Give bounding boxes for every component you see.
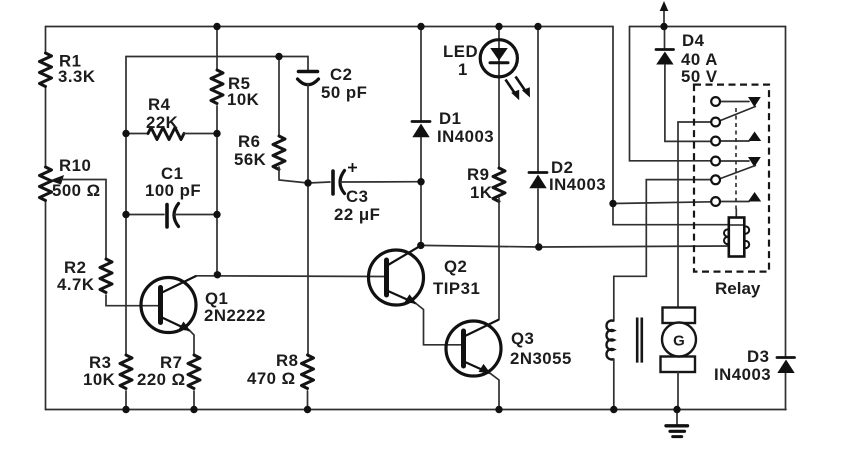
wire C1 right lead	[175, 214, 218, 216]
node R6 top	[275, 53, 282, 60]
svg-text:470 Ω: 470 Ω	[247, 369, 296, 388]
svg-text:D3: D3	[747, 347, 769, 366]
svg-text:100 pF: 100 pF	[145, 181, 201, 200]
svg-text:500 Ω: 500 Ω	[52, 181, 101, 200]
label D2 IN4003	[549, 158, 606, 194]
relay contact 3	[711, 132, 761, 146]
wire C2 to C3 node vertical	[307, 84, 309, 184]
relay contact 6	[711, 192, 761, 206]
svg-text:4.7K: 4.7K	[57, 275, 94, 294]
svg-text:10K: 10K	[227, 90, 259, 109]
wire top rail	[46, 27, 614, 225]
svg-text:G: G	[673, 333, 685, 350]
wire D4 box left to c4	[630, 27, 712, 161]
wire R9 to Q3 collector	[498, 198, 500, 320]
relay contact 1	[711, 97, 761, 107]
capacitor C2	[298, 72, 319, 85]
wire Q2 emitter to Q3 base	[416, 304, 461, 345]
wire C1 left lead	[126, 214, 164, 216]
wire collector line Q2 Q3 to relay coil	[421, 245, 729, 247]
label R1 3.3K	[58, 52, 95, 87]
node C1 right	[213, 211, 220, 218]
node Q1 collector	[214, 271, 221, 278]
transistor Q1	[141, 276, 197, 333]
node ground	[673, 406, 680, 413]
transistor Q2	[369, 246, 424, 305]
wire R10 wiper to R2	[62, 180, 106, 260]
svg-text:R6: R6	[238, 132, 260, 151]
svg-text:LED: LED	[443, 42, 478, 61]
resistor R1	[40, 53, 52, 87]
wire generator to ground node	[677, 372, 679, 410]
node top rail D1	[417, 23, 424, 30]
node R7 bottom	[190, 406, 197, 413]
label R6 56K	[234, 132, 266, 169]
label R3 10K	[83, 353, 115, 389]
wire C3 right lead to D1 line	[341, 181, 422, 183]
inductor coil	[606, 321, 613, 360]
svg-text:IN4003: IN4003	[437, 127, 494, 146]
wire Q3 emitter to bottom rail	[490, 373, 499, 409]
label R4 22K	[146, 95, 178, 132]
svg-text:50 V: 50 V	[681, 67, 718, 86]
transistor Q3	[446, 320, 501, 377]
svg-text:R9: R9	[467, 165, 489, 184]
label R7 220	[137, 353, 186, 389]
label R10 500	[52, 156, 101, 200]
node R8 bottom	[304, 406, 311, 413]
svg-text:R4: R4	[148, 95, 171, 114]
wire node to R8	[307, 183, 309, 355]
node C3 left	[304, 179, 311, 186]
wire R4 left lead	[126, 133, 148, 135]
svg-text:Q2: Q2	[444, 257, 467, 276]
node R3 bottom	[122, 406, 129, 413]
node top rail D2	[534, 23, 541, 30]
label Q3 2N3055	[510, 329, 572, 368]
svg-text:2N3055: 2N3055	[510, 349, 572, 368]
wire R4 right lead	[184, 133, 217, 135]
svg-text:Q3: Q3	[511, 329, 534, 348]
transformer core bars	[637, 318, 642, 363]
wire D4 box top	[630, 26, 786, 28]
label R2 4.7K	[57, 258, 94, 294]
resistor R7	[188, 355, 200, 389]
svg-text:TIP31: TIP31	[433, 279, 480, 298]
node R4 left	[122, 130, 129, 137]
resistor R2	[100, 259, 112, 293]
capacitor C1	[167, 204, 179, 228]
label D3 IN4003	[714, 347, 771, 384]
wire R7 to bottom rail	[193, 391, 195, 410]
wire left rail	[45, 27, 47, 410]
potentiometer R10	[40, 167, 65, 201]
svg-text:22K: 22K	[146, 113, 178, 132]
diode D2	[529, 173, 547, 189]
wire coil to bottom rail	[613, 359, 615, 410]
capacitor C3	[333, 163, 357, 194]
wire bottom rail	[46, 409, 787, 411]
label R9 1K	[467, 165, 492, 202]
LED 1	[480, 40, 530, 101]
wire R5 branch vertical	[216, 27, 218, 275]
generator G	[661, 308, 697, 373]
resistor R4	[148, 128, 184, 140]
resistor R6	[273, 136, 285, 170]
wire R4-C1 box top	[126, 57, 308, 73]
relay contact 5 arm	[711, 165, 756, 184]
svg-text:220 Ω: 220 Ω	[137, 370, 186, 389]
ground	[666, 410, 688, 437]
node C1 left	[122, 211, 129, 218]
label Q2 TIP31	[433, 257, 480, 298]
label Q1 2N2222	[204, 289, 266, 325]
svg-text:D1: D1	[439, 109, 461, 128]
node top rail LED	[495, 23, 502, 30]
node Q3 emitter bottom	[495, 406, 502, 413]
node D2 bottom	[535, 243, 542, 250]
svg-text:R10: R10	[59, 156, 91, 175]
svg-text:IN4003: IN4003	[549, 175, 606, 194]
svg-text:1: 1	[458, 60, 468, 79]
relay mechanism dashed link	[735, 108, 737, 209]
node battery D4	[660, 23, 667, 30]
wire D1 branch vertical	[420, 27, 422, 246]
resistor R5	[211, 70, 223, 104]
resistor R8	[302, 355, 314, 389]
wire R3 to bottom rail	[125, 391, 127, 410]
svg-text:1K: 1K	[470, 183, 492, 202]
svg-text:10K: 10K	[83, 370, 115, 389]
svg-text:C3: C3	[346, 187, 368, 206]
svg-text:50 pF: 50 pF	[321, 83, 367, 102]
label Relay	[715, 279, 761, 298]
label D1 IN4003	[437, 109, 494, 146]
label R5 10K	[227, 74, 259, 109]
label C2 50pF	[321, 65, 367, 102]
wire relay coil top-left feed	[613, 224, 744, 226]
svg-text:3.3K: 3.3K	[58, 67, 95, 86]
diode D1	[412, 122, 430, 138]
wire Q1 collector to Q2 base	[197, 275, 385, 278]
label D4 40A 50V	[681, 31, 718, 86]
battery arrow up	[660, 1, 669, 27]
svg-text:C2: C2	[330, 65, 352, 84]
label LED 1	[443, 42, 478, 79]
wire R4-C1 box left vertical	[125, 57, 127, 356]
relay box	[694, 85, 769, 272]
relay contact 2 arm	[711, 106, 756, 126]
wire c6 feed	[613, 202, 712, 204]
wire Q1 emitter to R7	[190, 331, 194, 355]
label C1 100pF	[145, 164, 201, 200]
wire D2 branch vertical	[537, 27, 539, 248]
node coil bottom	[610, 406, 617, 413]
wire c5 to coil top	[614, 180, 712, 321]
resistor R3	[120, 355, 132, 389]
wire c2 to generator	[678, 122, 712, 308]
diode D4	[656, 27, 712, 142]
svg-text:IN4003: IN4003	[714, 365, 771, 384]
label C3 22uF	[334, 187, 380, 224]
wire LED branch vertical	[498, 27, 500, 169]
node Q2 collector D1	[417, 242, 424, 249]
svg-text:R8: R8	[276, 351, 298, 370]
node top rail R5	[213, 23, 220, 30]
wire R8 to bottom rail	[307, 391, 309, 410]
wire D4 box right to D3	[785, 27, 787, 410]
svg-text:Relay: Relay	[715, 279, 761, 298]
node C3 right D1	[417, 178, 424, 185]
svg-text:22 μF: 22 μF	[334, 205, 380, 224]
resistor R9	[493, 168, 505, 202]
svg-text:56K: 56K	[234, 150, 266, 169]
relay coil	[724, 209, 749, 257]
label R8 470	[247, 351, 298, 388]
svg-text:2N2222: 2N2222	[204, 306, 266, 325]
wire R2 to Q1 base	[106, 295, 158, 306]
svg-text:D4: D4	[682, 31, 705, 50]
diode D3	[777, 358, 795, 374]
node rail end c6	[609, 200, 616, 207]
node R4 right	[213, 130, 220, 137]
relay contact 4	[711, 157, 761, 167]
wire C3 left lead	[308, 182, 330, 183]
wire R6 branch	[278, 57, 280, 137]
wire R6 bottom to node	[279, 167, 308, 183]
